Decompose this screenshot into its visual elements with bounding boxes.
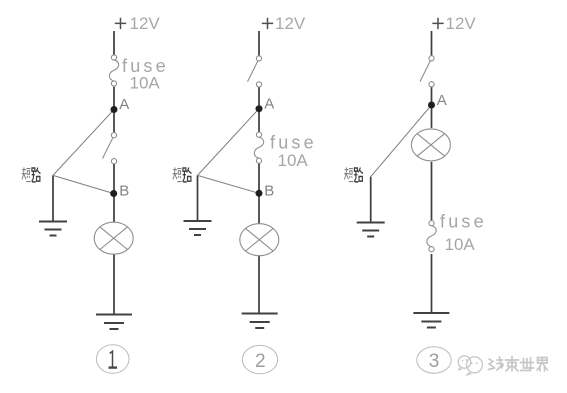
svg-text:A: A xyxy=(264,96,274,113)
svg-text:3: 3 xyxy=(429,351,440,372)
svg-text:B: B xyxy=(119,183,129,200)
svg-text:fuse: fuse xyxy=(440,212,487,232)
svg-text:fuse: fuse xyxy=(270,133,317,153)
svg-text:A: A xyxy=(437,92,447,109)
svg-text:2: 2 xyxy=(255,351,266,372)
svg-text:12V: 12V xyxy=(275,14,306,33)
svg-text:B: B xyxy=(264,183,274,200)
svg-text:10A: 10A xyxy=(445,235,476,254)
svg-text:A: A xyxy=(119,96,129,113)
svg-text:10A: 10A xyxy=(278,151,309,170)
svg-text:10A: 10A xyxy=(130,74,161,93)
svg-text:12V: 12V xyxy=(130,14,161,33)
svg-text:12V: 12V xyxy=(446,14,477,33)
